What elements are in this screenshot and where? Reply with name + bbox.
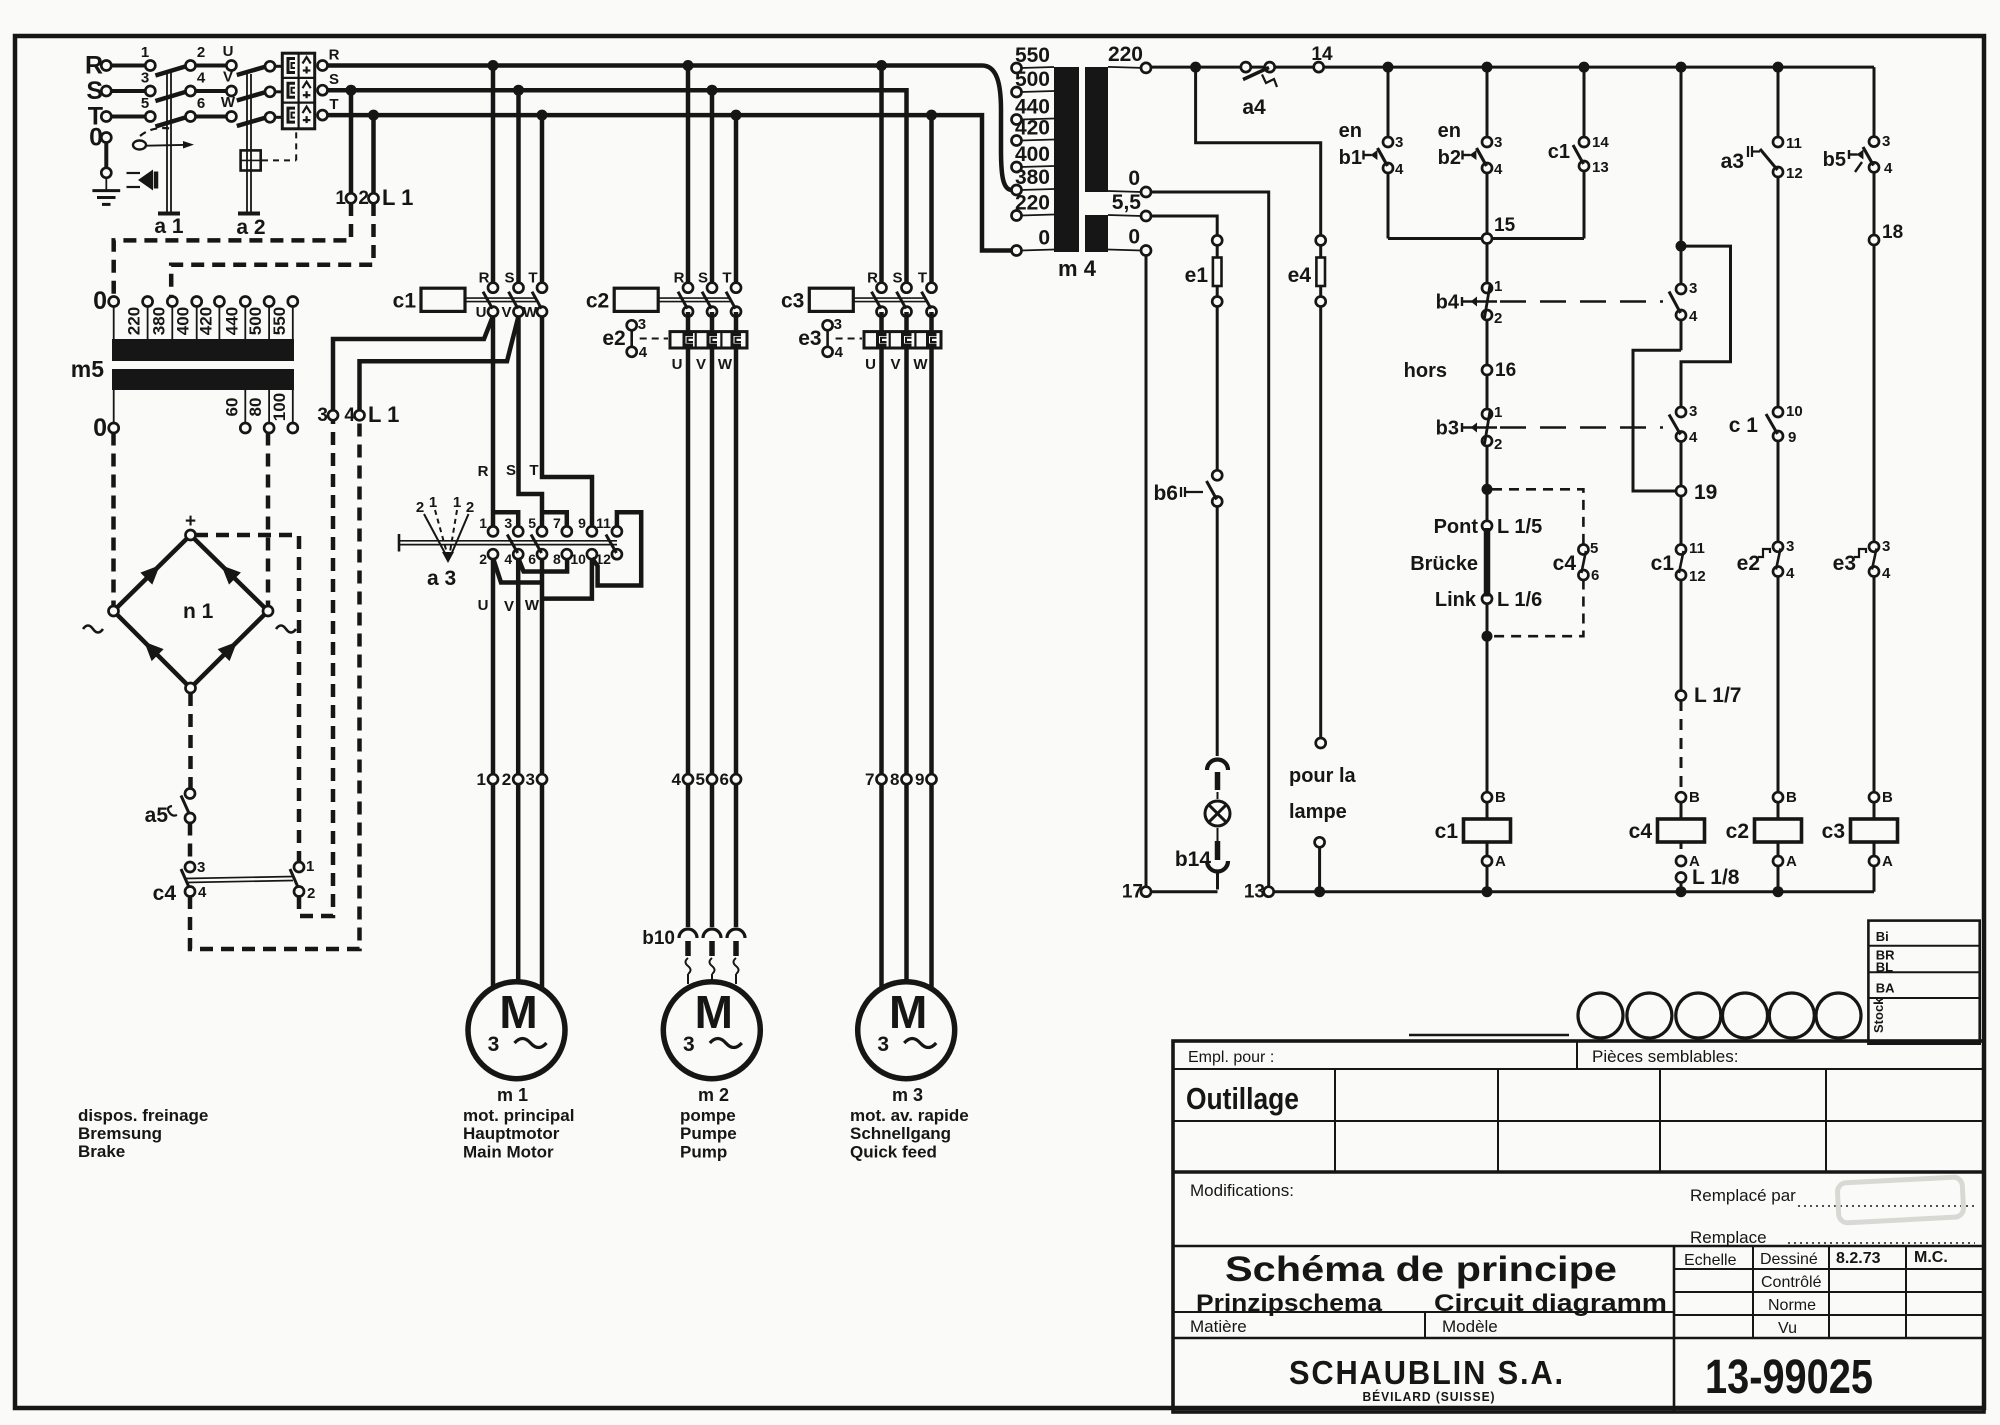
svg-text:9: 9 [578, 515, 586, 531]
svg-text:m 4: m 4 [1058, 256, 1097, 281]
svg-text:a 3: a 3 [427, 567, 456, 590]
svg-text:9: 9 [915, 770, 924, 789]
svg-text:10: 10 [570, 551, 586, 567]
svg-text:3: 3 [1882, 133, 1890, 150]
svg-text:7: 7 [865, 770, 874, 789]
svg-text:c4: c4 [1629, 820, 1653, 843]
svg-text:Bremsung: Bremsung [78, 1124, 162, 1143]
svg-text:2: 2 [466, 499, 474, 516]
svg-text:B: B [1786, 789, 1797, 806]
svg-text:M: M [695, 986, 733, 1038]
svg-text:Link: Link [1435, 589, 1477, 611]
svg-text:c 1: c 1 [1729, 414, 1759, 437]
svg-text:550: 550 [1015, 44, 1050, 67]
svg-text:hors: hors [1404, 360, 1447, 382]
svg-text:Modèle: Modèle [1442, 1317, 1498, 1336]
svg-text:M: M [889, 986, 927, 1038]
svg-text:3: 3 [504, 515, 512, 531]
svg-text:a 1: a 1 [154, 215, 184, 238]
svg-text:Quick feed: Quick feed [850, 1142, 937, 1161]
svg-text:5: 5 [1590, 540, 1598, 557]
svg-text:0: 0 [93, 287, 107, 315]
svg-text:2: 2 [307, 885, 315, 902]
svg-text:13-99025: 13-99025 [1705, 1351, 1873, 1404]
svg-text:3: 3 [1395, 134, 1403, 151]
svg-text:380: 380 [149, 307, 168, 335]
svg-text:c1: c1 [1548, 141, 1570, 163]
svg-text:0: 0 [1128, 226, 1140, 249]
svg-text:2: 2 [1494, 310, 1502, 327]
svg-text:T: T [529, 462, 538, 479]
svg-text:U: U [865, 356, 876, 373]
svg-text:R: R [479, 270, 490, 287]
svg-text:a5: a5 [145, 804, 169, 827]
svg-text:1: 1 [1494, 404, 1502, 421]
svg-text:4: 4 [1395, 161, 1404, 178]
svg-text:10: 10 [1786, 403, 1803, 420]
svg-text:T: T [329, 96, 338, 113]
svg-text:4: 4 [1786, 565, 1795, 582]
svg-text:220: 220 [125, 307, 144, 335]
svg-text:b1: b1 [1339, 147, 1362, 169]
svg-text:M.C.: M.C. [1914, 1249, 1948, 1266]
svg-text:220: 220 [1108, 43, 1143, 66]
svg-text:c3: c3 [781, 290, 804, 313]
svg-text:440: 440 [222, 307, 241, 335]
svg-text:b3: b3 [1436, 418, 1459, 440]
svg-text:1: 1 [453, 494, 461, 511]
svg-text:3: 3 [317, 405, 328, 426]
svg-text:4: 4 [197, 70, 206, 87]
svg-text:Main Motor: Main Motor [463, 1142, 554, 1161]
svg-text:+: + [185, 511, 196, 532]
svg-text:mot. av. rapide: mot. av. rapide [850, 1106, 969, 1125]
svg-text:13: 13 [1244, 882, 1265, 903]
svg-text:c1: c1 [1435, 820, 1459, 843]
svg-text:S: S [892, 270, 902, 287]
svg-text:3: 3 [488, 1033, 500, 1056]
svg-text:2: 2 [479, 551, 487, 567]
svg-text:3: 3 [1494, 134, 1502, 151]
svg-text:11: 11 [596, 515, 611, 531]
svg-text:4: 4 [1689, 308, 1698, 325]
svg-text:A: A [1786, 853, 1797, 870]
svg-text:Contrôlé: Contrôlé [1761, 1274, 1822, 1291]
svg-text:6: 6 [720, 770, 729, 789]
svg-text:M: M [499, 986, 537, 1038]
svg-text:8.2.73: 8.2.73 [1836, 1250, 1881, 1267]
svg-text:b2: b2 [1438, 147, 1461, 169]
svg-text:Stock: Stock [1871, 997, 1886, 1033]
svg-text:2: 2 [358, 188, 369, 209]
svg-text:4: 4 [1689, 429, 1698, 446]
svg-text:500: 500 [1015, 68, 1050, 91]
svg-text:dispos. freinage: dispos. freinage [78, 1106, 208, 1125]
svg-text:W: W [525, 597, 540, 614]
svg-text:Remplacé par: Remplacé par [1690, 1186, 1796, 1205]
svg-text:Dessiné: Dessiné [1760, 1251, 1818, 1268]
svg-text:pour la: pour la [1289, 765, 1357, 787]
svg-text:3: 3 [1882, 538, 1890, 555]
svg-text:4: 4 [344, 405, 355, 426]
svg-text:T: T [918, 270, 927, 287]
svg-text:11: 11 [1786, 135, 1802, 152]
svg-text:6: 6 [197, 95, 205, 112]
svg-text:Schéma de principe: Schéma de principe [1225, 1250, 1617, 1289]
svg-text:W: W [523, 304, 538, 321]
svg-text:Brücke: Brücke [1410, 553, 1478, 575]
svg-text:4: 4 [198, 884, 207, 901]
svg-text:0: 0 [1038, 227, 1050, 250]
svg-text:3: 3 [683, 1033, 695, 1056]
svg-text:3: 3 [638, 316, 646, 333]
svg-text:U: U [478, 597, 489, 614]
svg-text:Pièces semblables:: Pièces semblables: [1592, 1047, 1738, 1066]
svg-text:en: en [1438, 120, 1461, 142]
svg-text:T: T [722, 270, 731, 287]
svg-text:c1: c1 [1651, 552, 1675, 575]
svg-text:m 3: m 3 [892, 1085, 923, 1105]
svg-text:13: 13 [1592, 159, 1609, 176]
svg-text:c4: c4 [1553, 552, 1577, 575]
svg-text:e3: e3 [798, 327, 821, 350]
svg-text:e2: e2 [602, 327, 625, 350]
svg-text:BA: BA [1876, 981, 1895, 996]
svg-text:e1: e1 [1185, 264, 1209, 287]
svg-text:R: R [867, 270, 878, 287]
svg-text:S: S [504, 270, 514, 287]
svg-text:pompe: pompe [680, 1106, 736, 1125]
svg-text:A: A [1495, 853, 1506, 870]
svg-text:Vu: Vu [1778, 1320, 1797, 1337]
svg-text:3: 3 [1689, 280, 1697, 297]
svg-text:lampe: lampe [1289, 801, 1347, 823]
svg-text:Modifications:: Modifications: [1190, 1181, 1294, 1200]
svg-text:n 1: n 1 [183, 600, 214, 623]
svg-text:4: 4 [1494, 161, 1503, 178]
svg-text:1: 1 [1494, 278, 1502, 295]
svg-text:Remplace: Remplace [1690, 1228, 1767, 1247]
svg-text:7: 7 [553, 515, 561, 531]
svg-text:W: W [221, 94, 236, 111]
svg-text:c2: c2 [1726, 820, 1749, 843]
svg-text:U: U [476, 304, 487, 321]
svg-text:Pump: Pump [680, 1142, 727, 1161]
svg-text:2: 2 [1494, 436, 1502, 453]
svg-text:60: 60 [222, 398, 241, 417]
svg-text:m5: m5 [71, 356, 104, 382]
svg-text:b5: b5 [1823, 149, 1846, 171]
svg-text:4: 4 [1882, 565, 1891, 582]
svg-text:1: 1 [479, 515, 487, 531]
svg-text:W: W [913, 356, 928, 373]
svg-text:b4: b4 [1436, 292, 1460, 314]
svg-text:8: 8 [890, 770, 899, 789]
svg-text:Echelle: Echelle [1684, 1252, 1737, 1269]
svg-text:1: 1 [335, 188, 346, 209]
svg-text:80: 80 [246, 398, 265, 417]
svg-text:6: 6 [528, 551, 536, 567]
svg-text:b10: b10 [642, 928, 675, 949]
svg-text:Pumpe: Pumpe [680, 1124, 737, 1143]
svg-text:a 2: a 2 [236, 216, 265, 239]
svg-text:12: 12 [1689, 568, 1706, 585]
svg-text:1: 1 [429, 494, 437, 511]
svg-text:c2: c2 [586, 290, 609, 313]
svg-text:Schnellgang: Schnellgang [850, 1124, 951, 1143]
svg-text:U: U [672, 356, 683, 373]
svg-text:5,5: 5,5 [1112, 191, 1142, 214]
svg-text:15: 15 [1494, 215, 1516, 236]
svg-text:3: 3 [141, 70, 149, 87]
svg-text:a3: a3 [1721, 150, 1744, 173]
svg-text:e4: e4 [1288, 264, 1312, 287]
svg-text:V: V [696, 356, 706, 373]
svg-text:1: 1 [306, 858, 314, 875]
svg-text:4: 4 [504, 551, 512, 567]
svg-text:c3: c3 [1822, 820, 1845, 843]
svg-text:380: 380 [1015, 166, 1050, 189]
svg-text:14: 14 [1311, 44, 1333, 65]
svg-text:c4: c4 [153, 882, 177, 905]
svg-text:5: 5 [141, 95, 149, 112]
svg-text:S: S [329, 71, 339, 88]
svg-text:3: 3 [877, 1033, 889, 1056]
svg-text:3: 3 [1786, 538, 1794, 555]
svg-text:S: S [506, 462, 516, 479]
svg-text:4: 4 [672, 770, 682, 789]
svg-text:2: 2 [502, 770, 511, 789]
svg-text:Pont: Pont [1434, 516, 1479, 538]
svg-text:Hauptmotor: Hauptmotor [463, 1124, 560, 1143]
svg-text:18: 18 [1882, 222, 1903, 243]
svg-text:W: W [718, 356, 733, 373]
svg-text:220: 220 [1015, 192, 1050, 215]
svg-text:BL: BL [1876, 960, 1893, 975]
svg-text:420: 420 [1015, 117, 1050, 140]
svg-text:V: V [501, 304, 511, 321]
svg-text:550: 550 [270, 307, 289, 335]
svg-text:3: 3 [197, 859, 205, 876]
svg-text:L 1: L 1 [382, 185, 413, 210]
svg-text:B: B [1689, 789, 1700, 806]
svg-text:en: en [1339, 120, 1362, 142]
svg-text:c1: c1 [393, 290, 417, 313]
svg-text:S: S [698, 270, 708, 287]
svg-text:Outillage: Outillage [1186, 1081, 1299, 1116]
svg-text:L 1/7: L 1/7 [1694, 684, 1741, 707]
svg-text:16: 16 [1495, 360, 1516, 381]
svg-text:b14: b14 [1175, 848, 1212, 871]
svg-text:R: R [329, 47, 340, 64]
svg-text:4: 4 [639, 344, 648, 361]
svg-text:m 1: m 1 [497, 1085, 528, 1105]
svg-text:R: R [674, 270, 685, 287]
svg-text:440: 440 [1015, 96, 1050, 119]
svg-text:500: 500 [246, 307, 265, 335]
svg-text:1: 1 [141, 44, 149, 61]
svg-text:1: 1 [477, 770, 486, 789]
svg-text:B: B [1882, 789, 1893, 806]
svg-text:Brake: Brake [78, 1142, 125, 1161]
svg-text:400: 400 [1015, 143, 1050, 166]
svg-text:b6: b6 [1153, 482, 1178, 505]
svg-text:12: 12 [1786, 165, 1803, 182]
svg-text:420: 420 [196, 307, 215, 335]
svg-text:L 1/8: L 1/8 [1692, 866, 1740, 889]
svg-text:V: V [504, 598, 514, 615]
svg-text:A: A [1882, 853, 1893, 870]
svg-text:e2: e2 [1737, 552, 1760, 575]
svg-text:T: T [528, 270, 537, 287]
svg-text:19: 19 [1694, 481, 1717, 504]
svg-text:11: 11 [1689, 540, 1705, 557]
svg-text:3: 3 [1689, 403, 1697, 420]
svg-text:2: 2 [197, 44, 205, 61]
svg-text:0: 0 [1128, 167, 1140, 190]
svg-text:Norme: Norme [1768, 1297, 1816, 1314]
svg-text:L 1/6: L 1/6 [1497, 589, 1542, 611]
svg-text:m 2: m 2 [698, 1085, 729, 1105]
svg-text:L 1: L 1 [368, 402, 399, 427]
svg-text:6: 6 [1591, 567, 1599, 584]
svg-text:SCHAUBLIN S.A.: SCHAUBLIN S.A. [1289, 1354, 1565, 1391]
svg-text:3: 3 [526, 770, 535, 789]
svg-text:3: 3 [834, 316, 842, 333]
svg-text:17: 17 [1122, 882, 1143, 903]
svg-text:0: 0 [93, 414, 107, 442]
svg-text:V: V [223, 69, 233, 86]
svg-text:4: 4 [1884, 160, 1893, 177]
svg-text:8: 8 [553, 551, 561, 567]
svg-text:R: R [478, 463, 489, 480]
svg-text:14: 14 [1592, 134, 1609, 151]
svg-text:4: 4 [835, 344, 844, 361]
svg-text:2: 2 [416, 499, 424, 516]
svg-text:Bi: Bi [1876, 929, 1889, 944]
svg-text:U: U [223, 43, 234, 60]
svg-text:5: 5 [528, 515, 536, 531]
svg-text:mot. principal: mot. principal [463, 1106, 574, 1125]
svg-text:L 1/5: L 1/5 [1497, 516, 1542, 538]
svg-text:BÉVILARD (SUISSE): BÉVILARD (SUISSE) [1363, 1389, 1496, 1404]
svg-text:B: B [1495, 789, 1506, 806]
svg-text:V: V [890, 356, 900, 373]
svg-text:e3: e3 [1833, 552, 1856, 575]
svg-text:Matière: Matière [1190, 1317, 1247, 1336]
svg-text:a4: a4 [1242, 96, 1266, 119]
svg-text:400: 400 [174, 307, 193, 335]
svg-text:9: 9 [1788, 429, 1796, 446]
svg-text:Empl. pour :: Empl. pour : [1188, 1049, 1274, 1066]
svg-text:100: 100 [270, 393, 289, 421]
svg-text:5: 5 [696, 770, 705, 789]
